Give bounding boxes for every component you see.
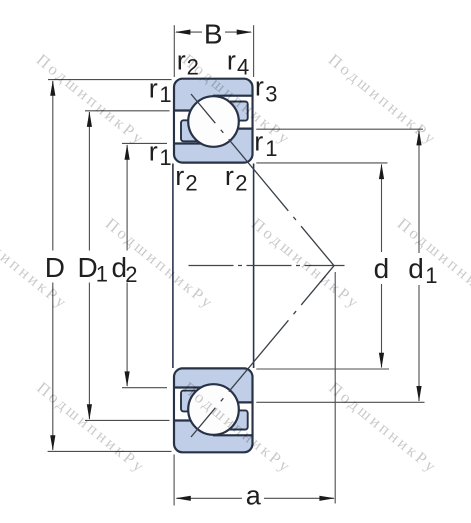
wire: inner ring shoulder line top-right: [213, 128, 252, 130]
dimension d2: [112, 143, 168, 387]
pocket white bottom-right: [213, 404, 252, 435]
svg-text:1: 1: [96, 262, 108, 287]
wire: outer ring bore line top-left: [173, 109, 214, 111]
svg-text:2: 2: [235, 170, 247, 195]
svg-text:2: 2: [185, 170, 197, 195]
dimension D1: [78, 111, 170, 421]
pocket white top-left: [175, 112, 215, 143]
wire: inner ring shoulder line bottom-right: [213, 401, 252, 403]
wire: outer ring bore line bottom-left: [173, 419, 214, 421]
cage segment top-left: [181, 120, 207, 141]
label r4 top-right: [227, 45, 249, 79]
contact angle line top: [191, 94, 334, 266]
wire: outer ring bore line bottom-right: [213, 434, 252, 436]
wire: left bore face line connecting sections: [172, 164, 174, 369]
svg-text:r: r: [175, 161, 184, 191]
svg-text:d: d: [408, 253, 424, 284]
pocket white bottom-left: [175, 389, 215, 420]
pocket white top-right: [213, 97, 252, 128]
label r1 upper-left: [149, 73, 172, 107]
cage segment top-right: [222, 102, 248, 121]
svg-text:r: r: [225, 161, 234, 191]
cage segment bottom-right: [222, 410, 248, 429]
svg-text:B: B: [204, 18, 223, 49]
ball bottom: [188, 384, 239, 435]
svg-text:r: r: [149, 137, 158, 167]
svg-text:1: 1: [425, 263, 437, 288]
node: bearing axis centerline: [185, 265, 345, 267]
ball top: [188, 96, 239, 147]
extension line: apex vertical: [334, 272, 336, 504]
label r2 top-left: [177, 45, 199, 79]
svg-text:a: a: [246, 481, 262, 511]
outer ring top section: [174, 79, 253, 163]
label r1 right: [254, 127, 277, 161]
svg-text:4: 4: [237, 55, 249, 80]
wire: inner ring shoulder line bottom-left: [173, 386, 214, 388]
wire: outer ring bore line top-right: [213, 95, 252, 97]
wire: right bore face line connecting sections: [253, 164, 255, 369]
label r1 lower-left: [149, 137, 172, 171]
svg-text:D: D: [78, 252, 98, 283]
dimension a: [174, 455, 335, 511]
svg-text:2: 2: [125, 262, 137, 287]
dimension D: [45, 80, 172, 452]
label r3 right: [255, 72, 278, 107]
wire: inner ring shoulder line top-left: [173, 142, 214, 144]
contact angle line bottom: [191, 266, 334, 437]
cage segment bottom-left: [181, 391, 207, 412]
dimension d1: [256, 129, 437, 402]
svg-text:1: 1: [159, 145, 171, 170]
svg-text:r: r: [149, 73, 158, 103]
dimension d: [256, 163, 389, 369]
dimension B: [174, 18, 253, 77]
outer ring bottom section: [174, 368, 253, 452]
svg-text:r: r: [227, 45, 236, 75]
label r2 bottom-right: [225, 161, 248, 196]
svg-text:3: 3: [265, 81, 277, 106]
svg-text:1: 1: [159, 82, 171, 107]
svg-text:r: r: [255, 72, 264, 102]
label r2 bottom-left: [175, 161, 197, 196]
svg-text:d: d: [374, 253, 390, 284]
